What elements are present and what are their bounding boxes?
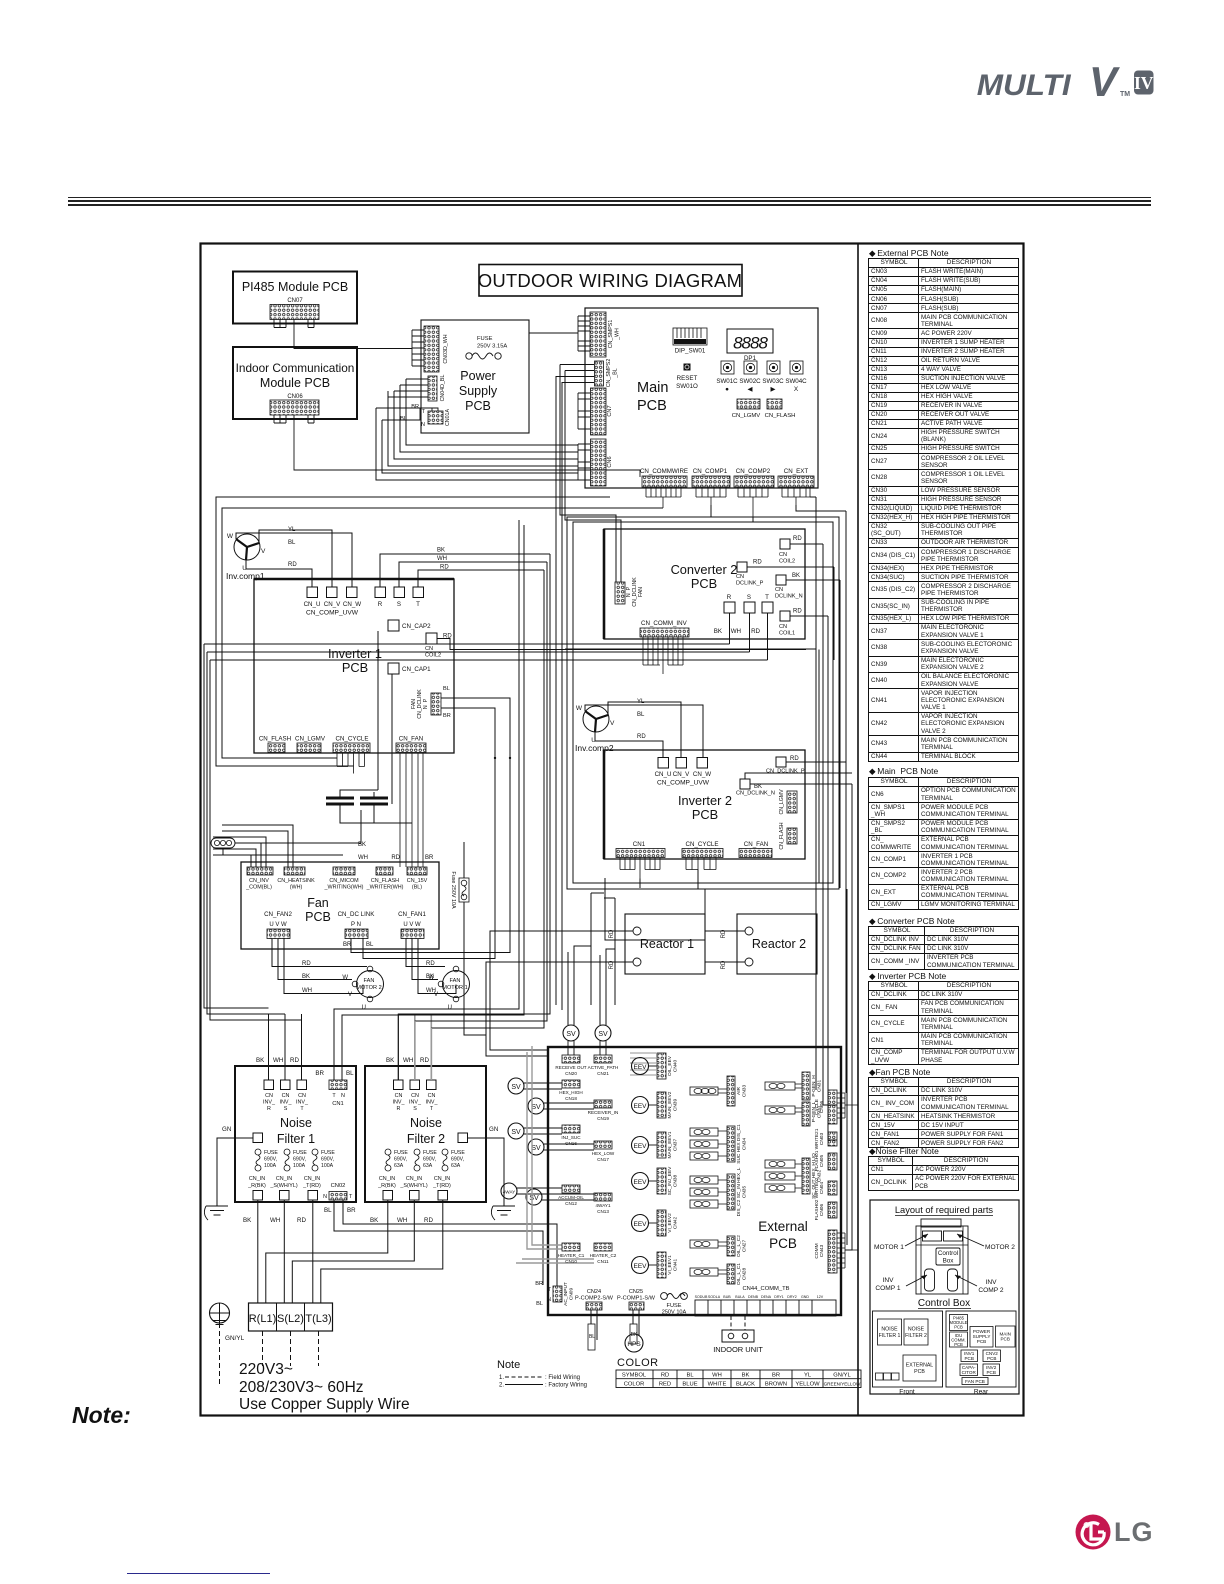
svg-text:CN_LGMV: CN_LGMV	[779, 789, 785, 815]
wires CN_DCLINK_FAN right	[441, 698, 510, 758]
fan motor 1	[443, 971, 470, 998]
connector CN06 CYCLE (right edge)	[828, 1090, 837, 1124]
svg-text:Noise: Noise	[280, 1116, 312, 1130]
svg-text:PCB: PCB	[691, 576, 717, 591]
svg-text:INV: INV	[986, 1279, 998, 1286]
pin CN_V (inv1)	[327, 587, 338, 598]
svg-text:CN41: CN41	[673, 1259, 679, 1272]
external pcb part	[903, 1355, 936, 1381]
svg-text:COIL2: COIL2	[779, 559, 795, 565]
svg-text:Box: Box	[943, 1258, 955, 1265]
svg-text:WH: WH	[358, 855, 368, 861]
svg-text:SW01O: SW01O	[676, 383, 698, 390]
svg-text:PCB: PCB	[692, 807, 718, 822]
svg-text:CN03D_WH: CN03D_WH	[443, 334, 449, 363]
svg-text:FILTER 2: FILTER 2	[905, 1333, 927, 1339]
svg-text:CN_LGMV: CN_LGMV	[732, 413, 761, 419]
wires inv.comp2 UVW	[585, 702, 703, 758]
wires reactor1	[486, 931, 633, 1056]
wire loop rect outer (comp1)	[567, 517, 839, 889]
Reactor 1 box	[625, 914, 705, 974]
Converter PCB Note table	[868, 926, 1019, 970]
svg-text:PCB: PCB	[914, 1369, 925, 1375]
svg-text:CN1: CN1	[332, 1101, 344, 1107]
Noise Filter Note table	[868, 1156, 1019, 1191]
wire ladder left of CN6	[578, 444, 590, 480]
svg-text:CN17: CN17	[597, 1157, 609, 1162]
comb below CN_COMP1	[696, 487, 726, 505]
svg-text:Front: Front	[899, 1389, 915, 1396]
svg-text:PCB: PCB	[977, 1339, 986, 1344]
Inverter PCB Note title	[869, 971, 946, 982]
svg-text:CN_SMPS1: CN_SMPS1	[608, 320, 614, 349]
capacitor C1	[326, 798, 354, 804]
svg-text:HEATER_C2: HEATER_C2	[590, 1253, 617, 1258]
layout panel frame	[870, 1200, 1019, 1394]
svg-text:RESET: RESET	[677, 375, 698, 382]
capacitor part	[960, 1364, 978, 1376]
svg-text:YL: YL	[804, 1373, 812, 1379]
Fan PCB Note title	[869, 1067, 930, 1078]
motor 2 rect	[944, 1231, 963, 1241]
right bundle vertical C (coil1 conv)	[828, 616, 837, 1140]
svg-text:CN_CYCLE: CN_CYCLE	[685, 841, 718, 848]
wires to fan motor 2	[272, 939, 367, 994]
right bundle vertical E	[845, 511, 852, 1250]
svg-text:HEX_HIGH: HEX_HIGH	[559, 1090, 583, 1095]
svg-text:CN_W: CN_W	[343, 601, 361, 608]
svg-text:Reactor 1: Reactor 1	[640, 937, 694, 951]
svg-text:4WAY: 4WAY	[503, 1190, 516, 1195]
connector CN_SMPS2_BL	[595, 361, 604, 386]
thermistor OIL_L_C1 CN28	[690, 1268, 718, 1276]
svg-text:220V3~: 220V3~	[239, 1361, 293, 1378]
connector ACCUM-OIL CN12	[562, 1185, 580, 1193]
left feeder verticals down to NF1 band	[204, 644, 302, 1020]
svg-text:CN44_COMM_TB: CN44_COMM_TB	[742, 1286, 789, 1292]
control box small	[936, 1248, 960, 1265]
svg-text:CN_IN: CN_IN	[249, 1176, 265, 1182]
svg-text:COMM: COMM	[814, 1243, 820, 1258]
inv comp 2 shape	[948, 1269, 958, 1291]
svg-text:BK: BK	[742, 1373, 750, 1379]
svg-text:SODLA: SODLA	[708, 1295, 721, 1299]
Converter 2 PCB box	[604, 529, 805, 639]
svg-text:CN: CN	[282, 1093, 290, 1099]
capacitor C2	[360, 798, 388, 804]
svg-text:DCLINK_P: DCLINK_P	[736, 581, 764, 587]
LG logo	[1070, 1508, 1190, 1552]
NF2 feeder wires	[398, 554, 550, 1080]
svg-text:CN35: CN35	[742, 1186, 748, 1199]
svg-text:PCB: PCB	[1000, 1337, 1009, 1342]
fuse F1 (NF2)	[385, 1149, 391, 1155]
motor Inv.comp2	[583, 706, 609, 732]
svg-text:BK: BK	[302, 974, 310, 980]
svg-text:BK: BK	[370, 1217, 379, 1224]
svg-text:BL: BL	[443, 686, 450, 692]
svg-text:T: T	[422, 409, 426, 415]
svg-text:FLASH01: FLASH01	[814, 1150, 820, 1171]
svg-text:100A: 100A	[321, 1163, 334, 1169]
svg-text:BK: BK	[754, 784, 762, 790]
svg-text:COMP 1: COMP 1	[875, 1285, 900, 1292]
converter R S T long wires left	[204, 644, 768, 660]
svg-text:MAIN_EEV1: MAIN_EEV1	[667, 1131, 673, 1158]
svg-text:CN7: CN7	[607, 405, 613, 416]
svg-text:AIR: AIR	[736, 1086, 742, 1095]
wire ladder left of CN7	[578, 393, 590, 429]
svg-text:N: N	[421, 422, 425, 428]
connector 4WAY1 CN13	[594, 1193, 612, 1201]
svg-text:CN: CN	[411, 1093, 419, 1099]
svg-text:2.: 2.	[499, 1383, 504, 1389]
motor 1 rect	[923, 1231, 942, 1241]
svg-text:PCB: PCB	[465, 399, 491, 413]
svg-text:BR: BR	[411, 404, 419, 410]
surge arrester	[211, 838, 235, 848]
svg-text:Filter 1: Filter 1	[277, 1132, 315, 1146]
svg-text:SODUB: SODUB	[695, 1295, 708, 1299]
svg-text:W: W	[227, 533, 234, 540]
connector HEATER_C1 CN10	[562, 1243, 580, 1251]
wire loop rect inner (comp2)	[573, 522, 833, 883]
wire bundle power supply to main pcb left	[376, 379, 578, 480]
comb below CN_EXT	[782, 487, 810, 505]
connector CN_FLASH (inv2)	[787, 828, 797, 844]
7-seg display DP1	[727, 329, 773, 353]
svg-text:CN12: CN12	[565, 1201, 577, 1206]
svg-text:Power: Power	[460, 369, 495, 383]
cnv2 pcb part	[983, 1350, 1001, 1362]
valve SV (active path)	[595, 1025, 611, 1041]
svg-text:CN: CN	[298, 1093, 306, 1099]
pin CN_W (inv2)	[697, 758, 708, 769]
connector CN_SMPS1_WH	[590, 312, 606, 357]
motor2 arrow	[957, 1234, 984, 1246]
dashed lead from earth	[219, 1323, 221, 1385]
svg-text:BR: BR	[443, 713, 451, 719]
svg-text:OUTDOOR WIRING DIAGRAM: OUTDOOR WIRING DIAGRAM	[478, 270, 742, 291]
connector CN_FLASH (main)	[767, 399, 782, 409]
protective earth circle	[210, 1303, 230, 1323]
Power Supply PCB box	[421, 320, 529, 433]
svg-text:DCLINK_N: DCLINK_N	[775, 594, 803, 600]
svg-text:BL: BL	[288, 540, 296, 546]
three small terminals	[876, 1373, 884, 1380]
svg-text:R: R	[727, 594, 732, 601]
fuse F1 (NF1)	[255, 1149, 261, 1155]
inverter2 tail wires to reactors band	[640, 870, 698, 889]
svg-text:: Factory Wiring: : Factory Wiring	[545, 1383, 587, 1389]
svg-text:X: X	[794, 386, 799, 393]
svg-text:CN21: CN21	[597, 1071, 609, 1076]
svg-text:RD: RD	[424, 1217, 433, 1224]
inv2 pcb part	[983, 1364, 1000, 1376]
wire COIL2 right	[437, 639, 819, 884]
comb below CN_COMM_INV	[643, 637, 683, 674]
svg-text:P-COMP1-S/W: P-COMP1-S/W	[617, 1296, 656, 1302]
comb below CN_FAN (inv1)	[400, 753, 423, 868]
svg-text:CN: CN	[265, 1093, 273, 1099]
color table	[616, 1370, 861, 1388]
fuse wires	[464, 842, 486, 1035]
svg-text:690V,: 690V,	[293, 1157, 306, 1163]
svg-text:250V 10A: 250V 10A	[662, 1310, 687, 1316]
svg-text:CN_DCLINK: CN_DCLINK	[417, 689, 423, 719]
svg-text:GN/YL: GN/YL	[225, 1335, 245, 1342]
wires into NF1 top	[269, 1014, 302, 1080]
svg-text:BK: BK	[256, 1057, 265, 1064]
fuse F2 (NF1)	[284, 1149, 290, 1155]
svg-text:PCB: PCB	[342, 660, 368, 675]
svg-text:Use Copper Supply Wire: Use Copper Supply Wire	[239, 1396, 410, 1413]
svg-text:CN: CN	[736, 574, 744, 580]
svg-text:CN40: CN40	[673, 1060, 679, 1073]
svg-text:INV_: INV_	[263, 1100, 276, 1106]
pin CN INV_R (NF2)	[394, 1080, 404, 1090]
connector CN_CAP2	[388, 620, 399, 631]
svg-text:100A: 100A	[264, 1163, 277, 1169]
svg-text:MOTOR 1: MOTOR 1	[874, 1244, 904, 1251]
ground (NF1)	[206, 1206, 228, 1215]
Fan PCB box	[241, 862, 439, 949]
svg-text:N: N	[341, 1093, 345, 1099]
svg-text:P-COMP2-S/W: P-COMP2-S/W	[575, 1296, 614, 1302]
svg-text:T: T	[430, 1106, 434, 1112]
svg-text:CN_CAP1: CN_CAP1	[402, 666, 431, 673]
svg-text:690V,: 690V,	[321, 1157, 334, 1163]
pin CN_V (inv2)	[676, 758, 687, 769]
right bundle vertical A	[810, 497, 816, 1090]
svg-text:CN1: CN1	[633, 841, 646, 848]
wires below CN24/CN25	[591, 1310, 639, 1340]
svg-text:GND: GND	[801, 1295, 809, 1299]
svg-text:BK: BK	[792, 573, 800, 579]
svg-text:BK: BK	[386, 1057, 395, 1064]
pin S (conv)	[744, 602, 755, 613]
svg-text:CN18: CN18	[565, 1096, 577, 1101]
svg-text:R: R	[267, 1106, 271, 1112]
svg-text:CN: CN	[775, 587, 783, 593]
svg-text:MOTOR 2: MOTOR 2	[356, 985, 381, 991]
connector CN7	[591, 388, 607, 435]
svg-text:CN_COMP2: CN_COMP2	[736, 468, 771, 475]
Main PCB box	[585, 308, 818, 488]
pin CN_U (inv1)	[307, 587, 318, 598]
svg-text:FAN: FAN	[364, 978, 375, 984]
svg-text:Inverter 1: Inverter 1	[328, 646, 382, 661]
wires into fan pcb top	[213, 825, 293, 867]
svg-text:GREEN/YELLOW: GREEN/YELLOW	[824, 1381, 861, 1386]
Note: heading bottom left	[72, 1402, 131, 1429]
svg-text:WRITE02: WRITE02	[814, 1177, 820, 1198]
svg-text:CN28: CN28	[742, 1268, 748, 1281]
connector CN_INV_COM(BL)	[247, 867, 273, 875]
svg-text:FILTER 1: FILTER 1	[879, 1333, 901, 1339]
wire inv2 dclink to right	[804, 762, 852, 784]
rear panel box	[946, 1311, 1016, 1387]
svg-text:690V,: 690V,	[423, 1157, 436, 1163]
svg-text:U V W: U V W	[403, 922, 421, 928]
svg-text:BL: BL	[346, 1070, 354, 1077]
connector HEX_LOW CN17	[594, 1141, 612, 1149]
connector CN_MICOM_WRITING(WH)	[333, 867, 355, 875]
svg-text:CN_CYCLE: CN_CYCLE	[335, 736, 368, 743]
Layout of required parts panel	[870, 1200, 1019, 1396]
connector CN_DCLINK_P (inv2)	[776, 757, 786, 767]
svg-text:CYCLE: CYCLE	[814, 1099, 820, 1115]
svg-text:INV_: INV_	[393, 1100, 406, 1106]
svg-text:U V W: U V W	[269, 922, 287, 928]
svg-text:CN31: CN31	[817, 1080, 823, 1093]
svg-text:CN_COMM_INV: CN_COMM_INV	[641, 620, 688, 627]
svg-text:CN_COMP_UVW: CN_COMP_UVW	[306, 610, 359, 617]
svg-text:EEV: EEV	[633, 1221, 647, 1228]
svg-text:DIP_SW01: DIP_SW01	[675, 348, 706, 355]
motor Inv.comp1	[234, 534, 260, 560]
svg-text:690V,: 690V,	[264, 1157, 277, 1163]
svg-text:RD: RD	[793, 536, 802, 542]
svg-text:CN_COMP_UVW: CN_COMP_UVW	[657, 780, 710, 787]
svg-text:SW02C: SW02C	[739, 378, 761, 385]
svg-text:RD: RD	[751, 628, 760, 635]
svg-text:T: T	[332, 1093, 336, 1099]
svg-text:Supply: Supply	[459, 384, 498, 398]
svg-text:12V: 12V	[817, 1295, 824, 1299]
svg-text:CN_FAN2: CN_FAN2	[264, 911, 292, 918]
connector CN04 WRITE02	[828, 1181, 837, 1195]
svg-text:CN37: CN37	[673, 1139, 679, 1152]
top double rule	[68, 197, 1151, 198]
svg-text:FUSE: FUSE	[477, 336, 493, 342]
svg-text:63A: 63A	[451, 1163, 461, 1169]
svg-text:COIL2: COIL2	[425, 653, 441, 659]
svg-text:Control Box: Control Box	[918, 1298, 970, 1309]
svg-text:Fuse 250V 10A: Fuse 250V 10A	[450, 871, 456, 909]
svg-text:PCB: PCB	[986, 1370, 995, 1375]
svg-text:FUSE: FUSE	[394, 1150, 408, 1156]
svg-text:T(L3): T(L3)	[305, 1313, 331, 1325]
svg-text:V: V	[261, 548, 266, 555]
svg-text:V: V	[348, 992, 352, 998]
pin T (conv)	[762, 602, 773, 613]
svg-text:BROWN: BROWN	[765, 1381, 787, 1387]
svg-text:DRY1: DRY1	[774, 1295, 784, 1299]
svg-text:LG: LG	[1114, 1517, 1154, 1547]
svg-text:CN16: CN16	[565, 1141, 577, 1146]
svg-text:BL: BL	[366, 942, 374, 948]
connector AC_INPUT CN09	[553, 1286, 562, 1302]
svg-text:R(L1): R(L1)	[249, 1313, 277, 1325]
svg-text:RD: RD	[721, 960, 727, 969]
push buttons SW01C-SW04C	[721, 361, 803, 374]
connector CN03D_WH	[424, 326, 439, 372]
svg-text:_BL: _BL	[613, 368, 619, 378]
svg-text:SV: SV	[531, 1104, 541, 1111]
wires R S T to right bundle	[380, 554, 550, 587]
svg-text:DIS_C2 SC_IN HEX_L: DIS_C2 SC_IN HEX_L	[736, 1167, 742, 1216]
valve SV (hex high)	[508, 1078, 524, 1094]
svg-text:RD: RD	[420, 1057, 429, 1064]
svg-text:CN: CN	[779, 624, 787, 630]
svg-text:WH: WH	[273, 1057, 283, 1064]
wires reactor2	[605, 878, 745, 962]
fuse 250V 10A (external)	[661, 1293, 668, 1300]
svg-text:1.: 1.	[499, 1375, 504, 1381]
svg-text:EEV: EEV	[633, 1179, 647, 1186]
unit top cap	[921, 1219, 961, 1227]
wire power to main top	[529, 332, 578, 334]
arrester wires	[223, 810, 361, 855]
svg-text:Filter 2: Filter 2	[407, 1132, 445, 1146]
connector HEX_HIGH CN18	[562, 1080, 580, 1088]
DIP switch DIP_SW01	[673, 328, 707, 345]
svg-text:CN_U: CN_U	[304, 601, 321, 608]
svg-text:External: External	[758, 1219, 808, 1234]
svg-text:CN38: CN38	[673, 1175, 679, 1188]
svg-text:RD: RD	[288, 562, 297, 568]
svg-text:INV_: INV_	[426, 1100, 439, 1106]
svg-text:CN_FLASH: CN_FLASH	[259, 736, 291, 743]
heater wires into left	[516, 1046, 594, 1263]
connector HEATER_C2 CN11	[594, 1243, 612, 1251]
wires from CN01A	[376, 408, 438, 420]
svg-text:_T(RD): _T(RD)	[432, 1183, 451, 1189]
svg-text:MAIN_EEV2: MAIN_EEV2	[667, 1091, 673, 1118]
svg-text:CN: CN	[779, 552, 787, 558]
svg-text:BL: BL	[686, 1373, 694, 1379]
wire comb below CN06	[274, 415, 314, 429]
wire CN1(NF1) up links	[334, 520, 524, 1080]
svg-text:BK: BK	[426, 974, 434, 980]
svg-text:CN_IN: CN_IN	[276, 1176, 292, 1182]
svg-text:CN39: CN39	[673, 1099, 679, 1112]
svg-text:FAN: FAN	[638, 587, 644, 597]
connector CN_LGMV (main)	[737, 399, 760, 409]
svg-text:CN20: CN20	[565, 1071, 577, 1076]
inv comp 1 shape	[925, 1269, 935, 1291]
svg-text:_S(WH/YL): _S(WH/YL)	[399, 1183, 427, 1189]
svg-text:INV_: INV_	[280, 1100, 293, 1106]
main pcb part	[996, 1326, 1016, 1347]
wires left of CN04D_BL	[388, 379, 428, 397]
svg-text:T: T	[548, 1287, 551, 1293]
svg-text:RD: RD	[391, 855, 400, 861]
pin CN INV_T (NF2)	[427, 1080, 437, 1090]
svg-text:SV: SV	[529, 1195, 539, 1202]
Main PCB Note title	[869, 766, 938, 777]
svg-text:CN_MICOM: CN_MICOM	[329, 878, 359, 884]
svg-text:CN_EXT: CN_EXT	[784, 468, 809, 475]
valve SV (receiver in)	[528, 1098, 544, 1114]
wire ladder left of CN_SMPS1	[578, 316, 590, 351]
Inverter 2 PCB box	[604, 750, 805, 859]
EEV valve MAIN_EEV1	[632, 1137, 649, 1154]
svg-text:PCB: PCB	[954, 1342, 963, 1347]
power supply pcb part	[970, 1327, 993, 1348]
svg-text:◀: ◀	[748, 386, 753, 393]
svg-text:CN24: CN24	[587, 1289, 601, 1295]
svg-text:690V,: 690V,	[451, 1157, 464, 1163]
pin CN_U (inv2)	[658, 758, 669, 769]
wires CN_DC_LINK to dclink bus	[351, 758, 510, 959]
thermistor HEX_H LIQ CN32	[765, 1160, 795, 1168]
svg-text:GN/YL: GN/YL	[833, 1373, 851, 1379]
svg-text:208/230V3~ 60Hz: 208/230V3~ 60Hz	[239, 1379, 364, 1396]
svg-text:BR: BR	[347, 1207, 356, 1214]
svg-text:RD: RD	[609, 960, 615, 969]
